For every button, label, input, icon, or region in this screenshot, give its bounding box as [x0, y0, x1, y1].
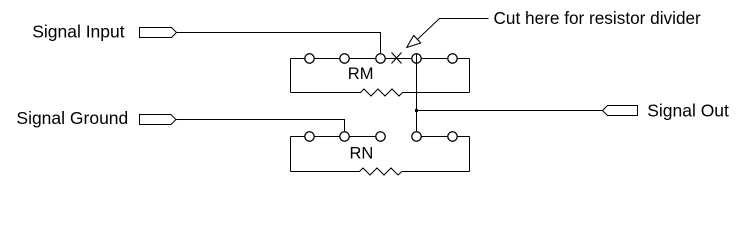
svg-text:Signal Ground: Signal Ground [16, 108, 128, 128]
svg-text:RM: RM [348, 65, 374, 83]
svg-text:Cut here for resistor divider: Cut here for resistor divider [494, 8, 702, 28]
svg-text:RN: RN [350, 144, 374, 162]
svg-text:Signal Out: Signal Out [647, 101, 729, 121]
svg-text:Signal Input: Signal Input [32, 22, 125, 42]
